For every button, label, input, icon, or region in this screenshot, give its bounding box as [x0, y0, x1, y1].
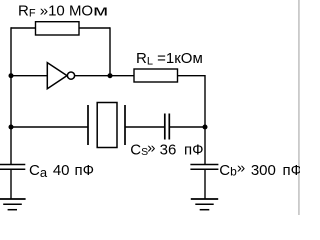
capacitor C_S: [165, 114, 170, 140]
node junction inverter output: [108, 73, 113, 78]
capacitor C_a: [0, 165, 25, 170]
wire crystal to CS: [125, 126, 165, 128]
node junction inverter input: [9, 73, 14, 78]
wire top feedback from left corner to RF: [11, 27, 35, 29]
resistor R_F: [18, 2, 108, 35]
svg-text:Ca 40 пФ: Ca 40 пФ: [29, 162, 94, 180]
wire right vertical rail: [204, 75, 206, 164]
svg-text:RL =1кОм: RL =1кОм: [136, 50, 203, 67]
svg-text:CS» 36 пФ: CS» 36 пФ: [130, 139, 203, 158]
wire vertical right of RF loop: [109, 27, 111, 75]
svg-text:RF »10 МОм: RF »10 МОм: [18, 2, 108, 19]
wire Cb to ground: [204, 169, 206, 199]
resistor R_L: [134, 50, 203, 82]
wire left vertical rail: [10, 27, 12, 164]
wire inverter input: [11, 75, 47, 77]
wire top feedback RF to right corner: [79, 27, 110, 29]
wire RL to right corner: [178, 75, 206, 77]
ground right: [191, 199, 218, 210]
svg-text:Cb» 300 пФ: Cb» 300 пФ: [219, 159, 300, 178]
ground left: [0, 199, 26, 210]
crystal Y1: [88, 103, 125, 148]
capacitor C_b: [190, 165, 218, 170]
node junction CS output: [203, 125, 208, 130]
wire CS to node B: [170, 126, 206, 128]
wire node A to crystal: [11, 126, 88, 128]
wire inverter output to RL: [75, 75, 134, 77]
node junction crystal branch: [9, 125, 14, 130]
frame right border: [298, 0, 299, 215]
inverter U1: [47, 63, 74, 89]
wire Ca to ground: [10, 169, 12, 199]
